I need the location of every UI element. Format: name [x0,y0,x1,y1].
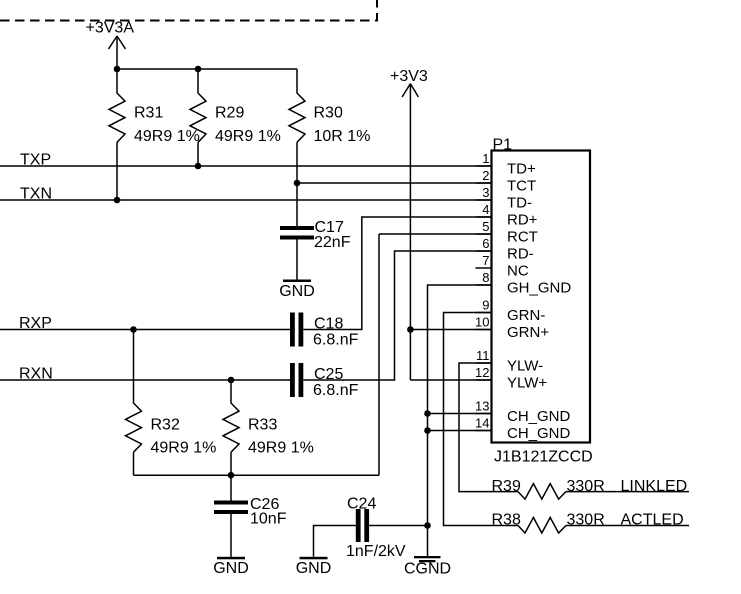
svg-text:10R 1%: 10R 1% [314,128,371,145]
resistor R33 [223,380,239,452]
svg-text:49R9 1%: 49R9 1% [151,440,217,457]
svg-text:+3V3: +3V3 [390,68,428,85]
svg-text:7: 7 [482,253,489,268]
svg-text:10nF: 10nF [250,511,287,528]
svg-text:ACTLED: ACTLED [621,512,684,529]
node junction R33/RXN [228,377,235,384]
svg-text:14: 14 [475,416,489,431]
ground GND (C17) [283,280,311,283]
svg-text:R31: R31 [134,105,163,122]
svg-text:8: 8 [482,270,489,285]
svg-text:RCT: RCT [507,228,538,245]
svg-text:NC: NC [507,262,529,279]
svg-text:TXP: TXP [20,151,51,168]
svg-text:C18: C18 [314,316,343,333]
svg-text:YLW+: YLW+ [507,374,547,391]
svg-text:1nF/2kV: 1nF/2kV [346,543,406,560]
node junction pin14/CGND column [424,427,431,434]
svg-text:RXP: RXP [19,315,52,332]
svg-text:RD+: RD+ [507,211,538,228]
node junction R31/TXN [114,197,121,204]
connector P1 body [492,151,591,443]
wire pin11 YLW- to R39 row [459,363,518,492]
node junction R32/RXP [130,326,137,333]
pin stubs 1-14 [476,166,492,431]
node junction pin13/CGND column [424,410,431,417]
wire TXN [0,199,492,201]
svg-text:4: 4 [482,202,489,217]
node junction C24/CGND column [424,522,431,529]
power +3V3A [109,36,126,69]
wire R39 output to LINKLED [566,491,689,493]
svg-text:11: 11 [476,348,490,363]
dashed sheet border [0,0,377,21]
resistor R31 [109,69,125,142]
svg-text:GH_GND: GH_GND [507,279,571,296]
wire pin9 GRN- to R38 row [444,313,519,526]
node junction R29/TXP [195,163,202,170]
wire pin8 GH_GND to CGND column [428,285,492,557]
svg-text:C24: C24 [347,496,376,513]
svg-text:GND: GND [213,560,249,577]
wire top rail [117,68,297,70]
svg-text:R30: R30 [314,105,343,122]
wire pin14 row [428,430,492,432]
svg-text:12: 12 [475,365,489,380]
svg-text:9: 9 [482,298,489,313]
svg-text:CH_GND: CH_GND [507,425,571,442]
svg-text:13: 13 [475,399,489,414]
node junction +3V3A/R31 [114,66,121,73]
svg-text:2: 2 [482,168,489,183]
svg-text:22nF: 22nF [314,234,351,251]
wire C26 to GND [230,514,232,557]
capacitor C26 [214,501,248,515]
wire RXN left [0,379,290,381]
svg-text:GRN-: GRN- [507,307,545,324]
wire pin5 RCT riser [379,234,492,475]
svg-text:J1B121ZCCD: J1B121ZCCD [494,449,593,466]
svg-text:5: 5 [482,219,489,234]
svg-text:RXN: RXN [19,365,53,382]
wire C25 to pin6 riser [303,251,491,380]
node junction C26/rail [228,472,235,479]
svg-text:330R: 330R [567,478,605,495]
svg-text:6.8.nF: 6.8.nF [313,382,359,399]
resistor R30 [289,69,305,142]
wire TXP [0,165,492,167]
capacitor C24 [356,509,369,542]
wire R38 output to ACTLED [566,525,689,527]
svg-text:LINKLED: LINKLED [621,478,688,495]
svg-text:YLW-: YLW- [507,357,543,374]
wire pin13 row [428,413,492,415]
resistor R32 [126,330,142,453]
node junction +3V3/GRN+ [407,326,414,333]
ground GND (C26) [217,557,245,560]
resistor R38 [518,518,566,534]
ground GND (C24) [300,557,328,560]
wire R33 bottom [230,452,232,475]
node junction rail/R29 [195,66,202,73]
wire R31 bottom [116,142,118,200]
svg-text:330R: 330R [567,512,605,529]
svg-text:1: 1 [482,151,489,166]
wire pin12 YLW+ row [410,379,491,381]
capacitor C17 [280,226,314,240]
svg-text:TXN: TXN [20,185,52,202]
svg-text:GND: GND [279,283,315,300]
svg-text:RD-: RD- [507,245,534,262]
svg-text:R33: R33 [248,417,277,434]
wire R30 bottom to C17 [296,142,298,226]
wire C17 to GND [296,240,298,280]
svg-text:49R9 1%: 49R9 1% [215,128,281,145]
svg-text:R38: R38 [492,512,521,529]
svg-text:R29: R29 [215,105,244,122]
svg-text:+3V3A: +3V3A [86,19,135,36]
wire C24 left to GND [314,526,356,557]
svg-text:TD+: TD+ [507,160,536,177]
svg-text:10: 10 [475,315,489,330]
resistor R29 [190,69,206,142]
svg-text:TD-: TD- [507,194,532,211]
wire C26 top [230,475,232,500]
pin 7 stub [476,267,492,269]
wire C24 right [369,525,427,527]
svg-text:CGND: CGND [404,560,451,577]
wire RXP left [0,329,290,331]
resistor R39 [518,484,566,500]
wire R32 bottom [133,452,135,475]
wire termination rail [134,474,380,476]
svg-text:R39: R39 [492,478,521,495]
svg-text:GRN+: GRN+ [507,324,549,341]
svg-text:CH_GND: CH_GND [507,408,571,425]
svg-text:TCT: TCT [507,177,536,194]
svg-text:R32: R32 [151,417,180,434]
capacitor C25 [290,363,303,397]
capacitor C18 [290,313,303,347]
wire TCT branch [297,182,492,184]
svg-text:C25: C25 [314,366,343,383]
power +3V3 [402,84,418,380]
svg-text:49R9 1%: 49R9 1% [248,440,314,457]
wire pin10 GRN+ row [410,329,491,331]
svg-text:GND: GND [296,560,332,577]
wire C18 to pin4 riser [303,217,491,330]
svg-text:6.8.nF: 6.8.nF [313,332,359,349]
svg-text:P1: P1 [493,136,513,153]
wire R29 bottom [197,142,199,166]
node junction R30/TCT [294,180,301,187]
svg-text:49R9 1%: 49R9 1% [134,128,200,145]
svg-text:6: 6 [482,236,489,251]
svg-text:3: 3 [482,185,489,200]
ground CGND [414,556,441,562]
